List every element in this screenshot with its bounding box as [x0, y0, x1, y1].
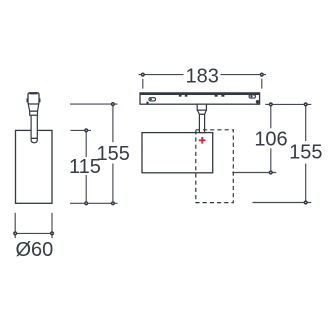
svg-text:183: 183: [186, 65, 219, 87]
svg-text:Ø60: Ø60: [15, 239, 53, 261]
svg-text:106: 106: [254, 128, 287, 150]
svg-text:155: 155: [97, 143, 130, 165]
svg-text:155: 155: [289, 141, 322, 163]
